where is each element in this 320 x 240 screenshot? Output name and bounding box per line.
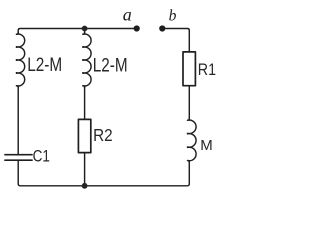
wire middle stub below top dot [84, 29, 86, 35]
wire terminal b to top-right corner down to R1 [162, 29, 189, 52]
svg-text:R2: R2 [93, 125, 113, 145]
wire top: left corner to terminal a [18, 29, 137, 35]
svg-text:R1: R1 [198, 60, 216, 79]
terminal a dot [134, 25, 140, 31]
svg-text:a: a [123, 4, 132, 24]
svg-text:C1: C1 [33, 146, 50, 165]
wire left bottom [18, 161, 84, 186]
junction dot bottom [82, 183, 88, 189]
capacitor C1 [5, 155, 32, 161]
wire between R1 and coil M [188, 86, 190, 120]
junction dot top [82, 26, 88, 32]
svg-text:M: M [200, 137, 213, 154]
inductor L2-M left coil [16, 33, 24, 88]
svg-text:b: b [169, 8, 177, 25]
resistor R2 [78, 119, 90, 152]
wire bottom right half [85, 161, 190, 186]
inductor M coil [188, 119, 197, 163]
wire middle between coil and R2 [84, 86, 86, 119]
svg-text:L2-M: L2-M [27, 55, 62, 76]
resistor R1 [183, 52, 195, 86]
svg-text:L2-M: L2-M [93, 55, 128, 76]
wire middle below R2 [84, 153, 86, 186]
wire left below coil [17, 86, 19, 154]
inductor L2-M middle coil [83, 33, 91, 88]
terminal b dot [159, 25, 165, 31]
